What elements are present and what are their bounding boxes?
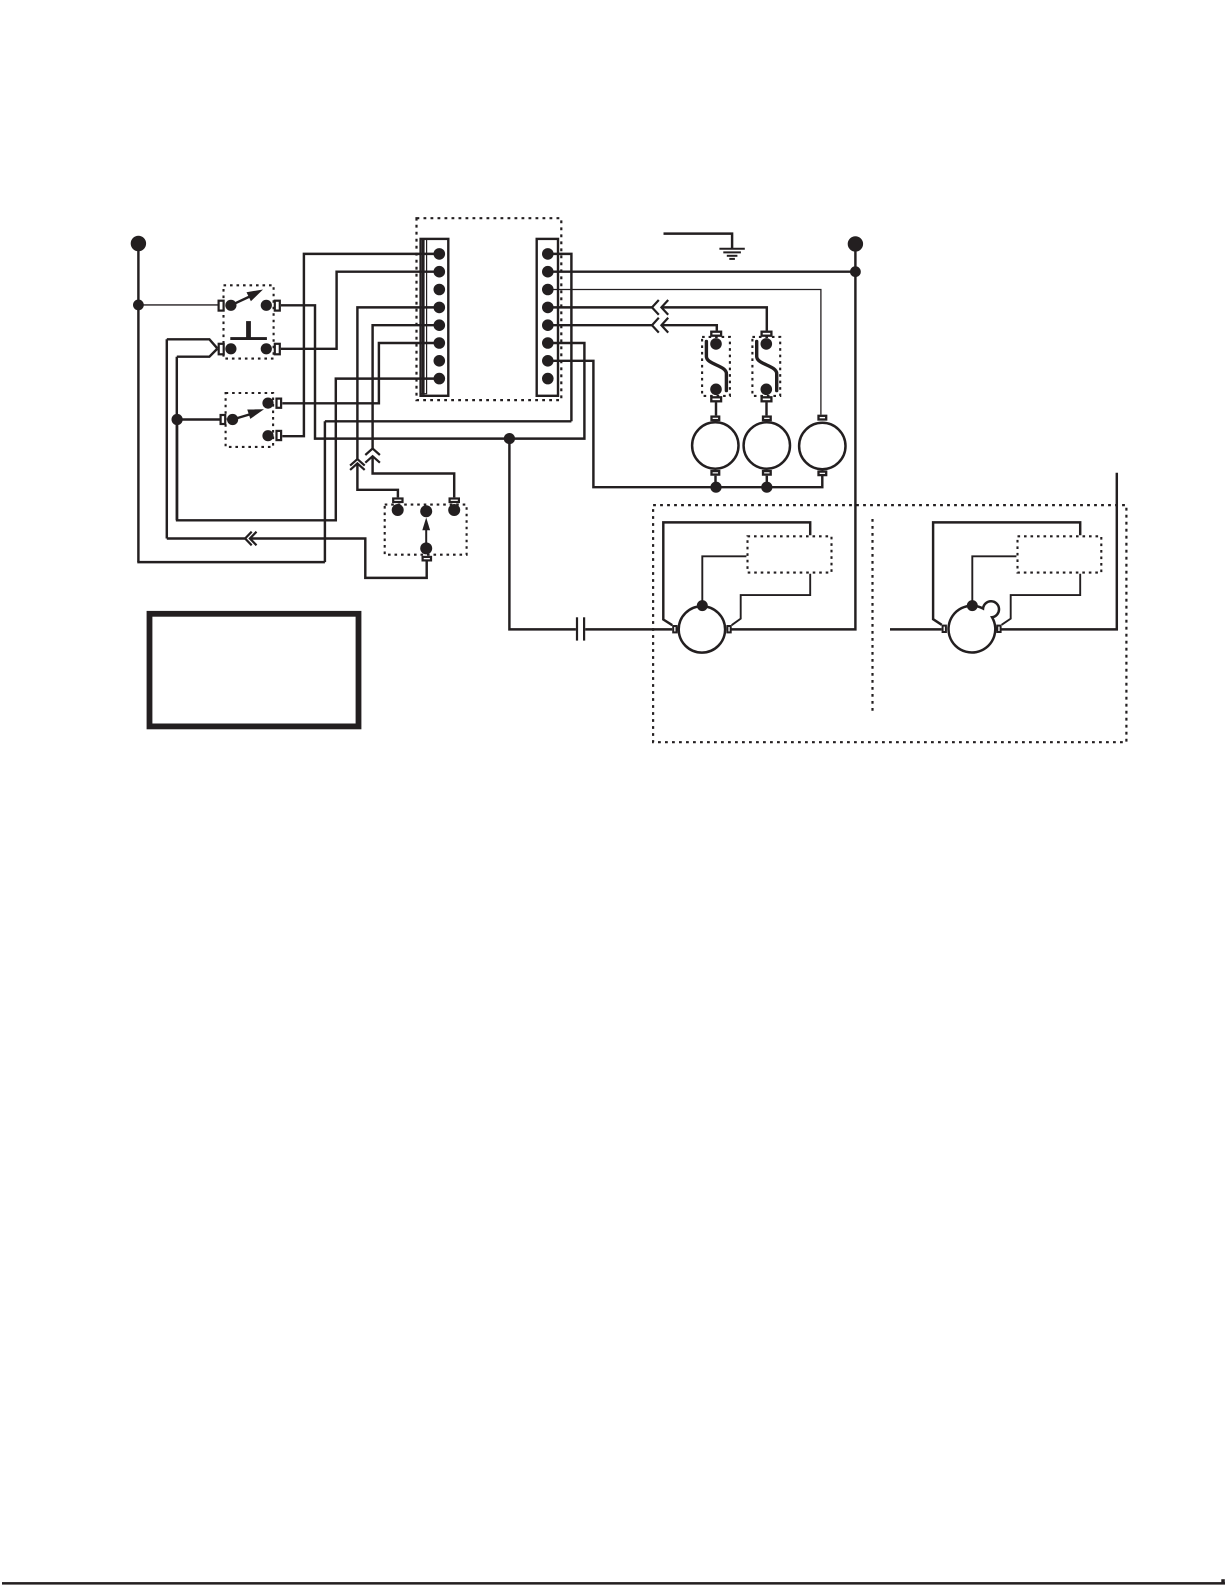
wire: chevron-return run (right part) to flasher bottom terminal [250, 539, 427, 578]
wire: horizontal run to connector row1 right riser [325, 420, 572, 422]
motor M2 right terminal [997, 626, 1000, 632]
bottom page rule [2, 1582, 1225, 1585]
relay R2 dashed box [1018, 536, 1102, 572]
motor M1 left terminal [673, 626, 676, 632]
wire: connector R-row2 to main junction at right bus [548, 270, 856, 272]
ground symbol bar 3 [727, 255, 738, 257]
flasher contact dot top-right [448, 504, 460, 516]
bottom rule right tick [1221, 1579, 1225, 1583]
flasher terminal right [450, 499, 459, 503]
connector right pin 1 dot [542, 248, 554, 260]
wire: connector R-row5 to chevron break (fuse F1 feed, left part) [548, 324, 652, 326]
wire: capacitor branch down from junction to motor feed [509, 439, 576, 630]
fuse F1 top terminal [711, 332, 721, 336]
lamp L3 top terminal [819, 416, 827, 420]
wire: fuse F1 feed (right part) down into fuse F1 top terminal [661, 325, 716, 330]
wire: feed wedge lower branch into S1 lower-left terminal [177, 349, 218, 357]
chevron break (left-pointing pair) on fuse F2 feed [652, 300, 668, 315]
wire: node A to switch S1 upper-left terminal (thin) [138, 304, 217, 306]
wire: motor M2 output to right riser (open end) [1002, 473, 1117, 630]
junction dot on wedge-lower vertical at S2 feed [172, 414, 183, 425]
washer pump M2 gourd body (circle with lobe) [948, 601, 999, 652]
junction dot lamp L2 bottom [761, 482, 772, 493]
flasher contact dot top-left [392, 504, 404, 516]
wire: connector R-row6 down and across to switch S1 upper-right terminal [281, 305, 584, 438]
connector left pin 7 dot [434, 355, 446, 367]
switch S2 lever arrowhead [247, 409, 264, 419]
wire: capacitor to wiper motor M1 left terminal [585, 628, 672, 630]
fuse F2 top terminal [762, 332, 772, 336]
switch S2 dotted enclosure [226, 393, 274, 447]
connector left pin 6 dot [434, 337, 446, 349]
lamp L1 top terminal [712, 417, 720, 421]
wire: chevron-return run from wedge vertical (left part) [167, 537, 245, 539]
switch S1 dotted enclosure [224, 285, 274, 358]
switch S1 lever line [231, 296, 250, 305]
wire: wedge upper branch vertical down to chevron-return wire [166, 339, 168, 538]
motor M1 armature dot [697, 600, 708, 611]
motor M1 right terminal [727, 626, 730, 632]
switch S1 contact dot upper-left [225, 300, 236, 311]
ground symbol bar 4 [729, 258, 735, 260]
flasher contact dot bottom [420, 542, 432, 554]
divider dotted line between wiper and washer sections [871, 519, 873, 714]
connector right pin 6 dot [542, 337, 554, 349]
wire: connector L-row6 left to riser and down to S2 upper-right terminal [282, 343, 439, 403]
lamp L3 body circle [799, 423, 845, 469]
connector right pin 5 dot [542, 319, 554, 331]
wire: flasher left feed below break into flasher left terminal [357, 463, 398, 497]
wire: riser up to connector row 1 (right side) [548, 254, 572, 421]
wire: motor M2 left loop [933, 522, 1080, 624]
fuse F2 bottom dot [761, 384, 773, 396]
wire: bottom rail from battery vertical to riser [137, 561, 325, 563]
wire: feed wedge upper branch into S1 lower-left terminal [167, 339, 218, 348]
switch S1 terminal upper-right [275, 301, 280, 311]
wire: connector L-row5 left and down to chevron break (flasher right feed) [373, 325, 440, 448]
connector left pin 1 dot [434, 248, 446, 260]
connector left pin 5 dot [434, 319, 446, 331]
node big dot top of right bus [848, 236, 863, 251]
lamp L2 body circle [744, 422, 790, 468]
fuse F1 dotted enclosure [702, 337, 730, 396]
connector right pin 3 dot [542, 284, 554, 296]
flasher terminal bottom [423, 557, 431, 561]
switch S1 terminal upper-left [219, 301, 224, 311]
switch S1 push-button bar (T horizontal bar) [230, 337, 267, 340]
switch S1 push-button stem (T vertical bar) [246, 321, 251, 337]
fuse F2 bottom terminal [762, 397, 772, 401]
connector right housing strip [537, 239, 558, 396]
switch S2 contact dot lower-right [262, 430, 273, 441]
junction dot right bus / row2 [850, 266, 861, 277]
wire: S2 left terminal to junction on wedge-lower vertical [177, 418, 219, 420]
fuse F1 element S-curve [706, 341, 726, 390]
flasher terminal left [393, 499, 402, 503]
lamp L1 body circle [692, 422, 738, 468]
chevron break (left-pointing pair) on fuse F1 feed [652, 318, 668, 333]
wire: connector L-row2 left to riser and down to S1 lower-right terminal [281, 272, 439, 349]
chevron break (left-pointing pair) on chevron-return run [245, 532, 256, 546]
connector right pin 4 dot [542, 302, 554, 314]
wire: riser up from bottom rail [324, 421, 326, 562]
ground symbol bar 2 [723, 251, 741, 253]
fuse F1 bottom terminal [711, 397, 721, 401]
wire: wedge lower branch vertical down through S2 junction [176, 357, 178, 521]
node B+ (battery positive big dot) [131, 236, 146, 251]
wire: battery feed vertical from node B+ down to bottom rail [137, 247, 139, 562]
wire: motor M1 right loop (terminal up and over to relay bottom) [732, 574, 811, 625]
fuse F1 bottom dot [710, 384, 722, 396]
ground symbol bar 1 [719, 248, 744, 250]
wire: fuse F2 feed (right part) down into fuse F2 top terminal [661, 307, 766, 330]
chevron break (up-pointing pair) on flasher right feed [365, 449, 380, 463]
flasher internal arrow line [425, 530, 427, 544]
capacitor C1 right plate [583, 617, 585, 640]
wire: connector R-row7 down and across lamp bottoms [548, 361, 823, 487]
relay R1 dashed box [748, 536, 832, 572]
switch S2 terminal left [221, 415, 226, 424]
wire: lamp L2 bottom stub [766, 476, 768, 488]
switch S2 terminal upper-right [277, 399, 282, 408]
lamp L1 bottom terminal [712, 471, 720, 475]
connector right pin 7 dot [542, 355, 554, 367]
fuse F2 top dot [761, 338, 773, 350]
switch S1 contact dot lower-left [225, 343, 236, 354]
wire: fuse F1 to lamp L1 [715, 402, 717, 415]
connector block dotted enclosure [417, 218, 562, 400]
connector right pin 8 dot [542, 373, 554, 385]
junction dot capacitor branch on S1/row6 wire [504, 433, 515, 444]
junction dot lamp L1 bottom [710, 482, 721, 493]
lamp L3 bottom terminal [819, 472, 827, 476]
lamp L2 bottom terminal [763, 471, 771, 475]
wiper/washer outer dotted enclosure [653, 505, 1126, 742]
switch S2 contact dot upper-right [262, 398, 273, 409]
flasher contact dot top-middle [420, 505, 432, 517]
switch S2 lever line [233, 414, 251, 420]
wire: main right bus vertical down to wiper motor feed [732, 247, 856, 629]
motor M1 body circle [679, 606, 725, 652]
connector left housing strip [421, 239, 449, 396]
connector left bus bar thin line [421, 240, 427, 394]
switch S2 contact dot left [227, 414, 238, 425]
legend box (thick empty rectangle) [150, 614, 359, 727]
lamp L2 top terminal [763, 417, 771, 421]
connector left pin 2 dot [434, 266, 446, 278]
motor M2 armature dot [967, 600, 978, 611]
flasher relay dotted enclosure [385, 505, 467, 555]
connector left pin 3 dot [434, 284, 446, 296]
wire: motor M1 armature dot to relay left side [702, 556, 746, 605]
wire: connector R-row3 to lamp L3 (thin) [548, 290, 821, 415]
wire: washer motor M2 feed stub [890, 628, 942, 630]
switch S1 contact dot lower-right [261, 343, 272, 354]
wire: connector L-row1 left to riser and down to S2 lower-right terminal [282, 254, 439, 436]
ground symbol lead wire [664, 234, 733, 249]
connector right pin 2 dot [542, 266, 554, 278]
switch S2 terminal lower-right [277, 431, 282, 440]
motor M2 left terminal [943, 626, 946, 632]
flasher internal arrowhead [422, 518, 430, 531]
wire: motor M2 right loop [1002, 574, 1081, 625]
connector left bus bar thick line [422, 239, 425, 395]
wire: motor M1 left loop (terminal up and over to relay top) [663, 522, 810, 625]
connector left pin 4 dot [434, 302, 446, 314]
switch S1 lever arrowhead [247, 290, 264, 302]
wire: connector R-row4 to chevron break (fuse F2 feed, left part) [548, 306, 652, 308]
wire: flasher right feed below break into flasher right terminal [373, 456, 455, 497]
wire: connector L-row8 left, down, across and up to S2 left junction [177, 379, 439, 521]
switch S1 terminal lower-left [219, 344, 224, 355]
fuse F2 element S-curve [757, 341, 777, 390]
wire: motor M2 armature dot to relay left side [972, 556, 1016, 605]
node A junction dot on battery vertical [133, 300, 144, 311]
connector left pin 8 dot [434, 373, 446, 385]
wire: lamp L1 bottom stub [714, 476, 716, 488]
switch S1 contact dot upper-right [261, 300, 272, 311]
switch S1 terminal lower-right [275, 344, 280, 355]
chevron break (up-pointing pair) on flasher left feed [350, 459, 365, 470]
capacitor C1 left plate [576, 617, 578, 640]
wire: connector L-row4 left and down to chevron break (flasher left feed) [357, 307, 439, 459]
wire: fuse F2 to lamp L2 [765, 402, 767, 415]
fuse F2 dotted enclosure [752, 337, 780, 396]
fuse F1 top dot [710, 338, 722, 350]
